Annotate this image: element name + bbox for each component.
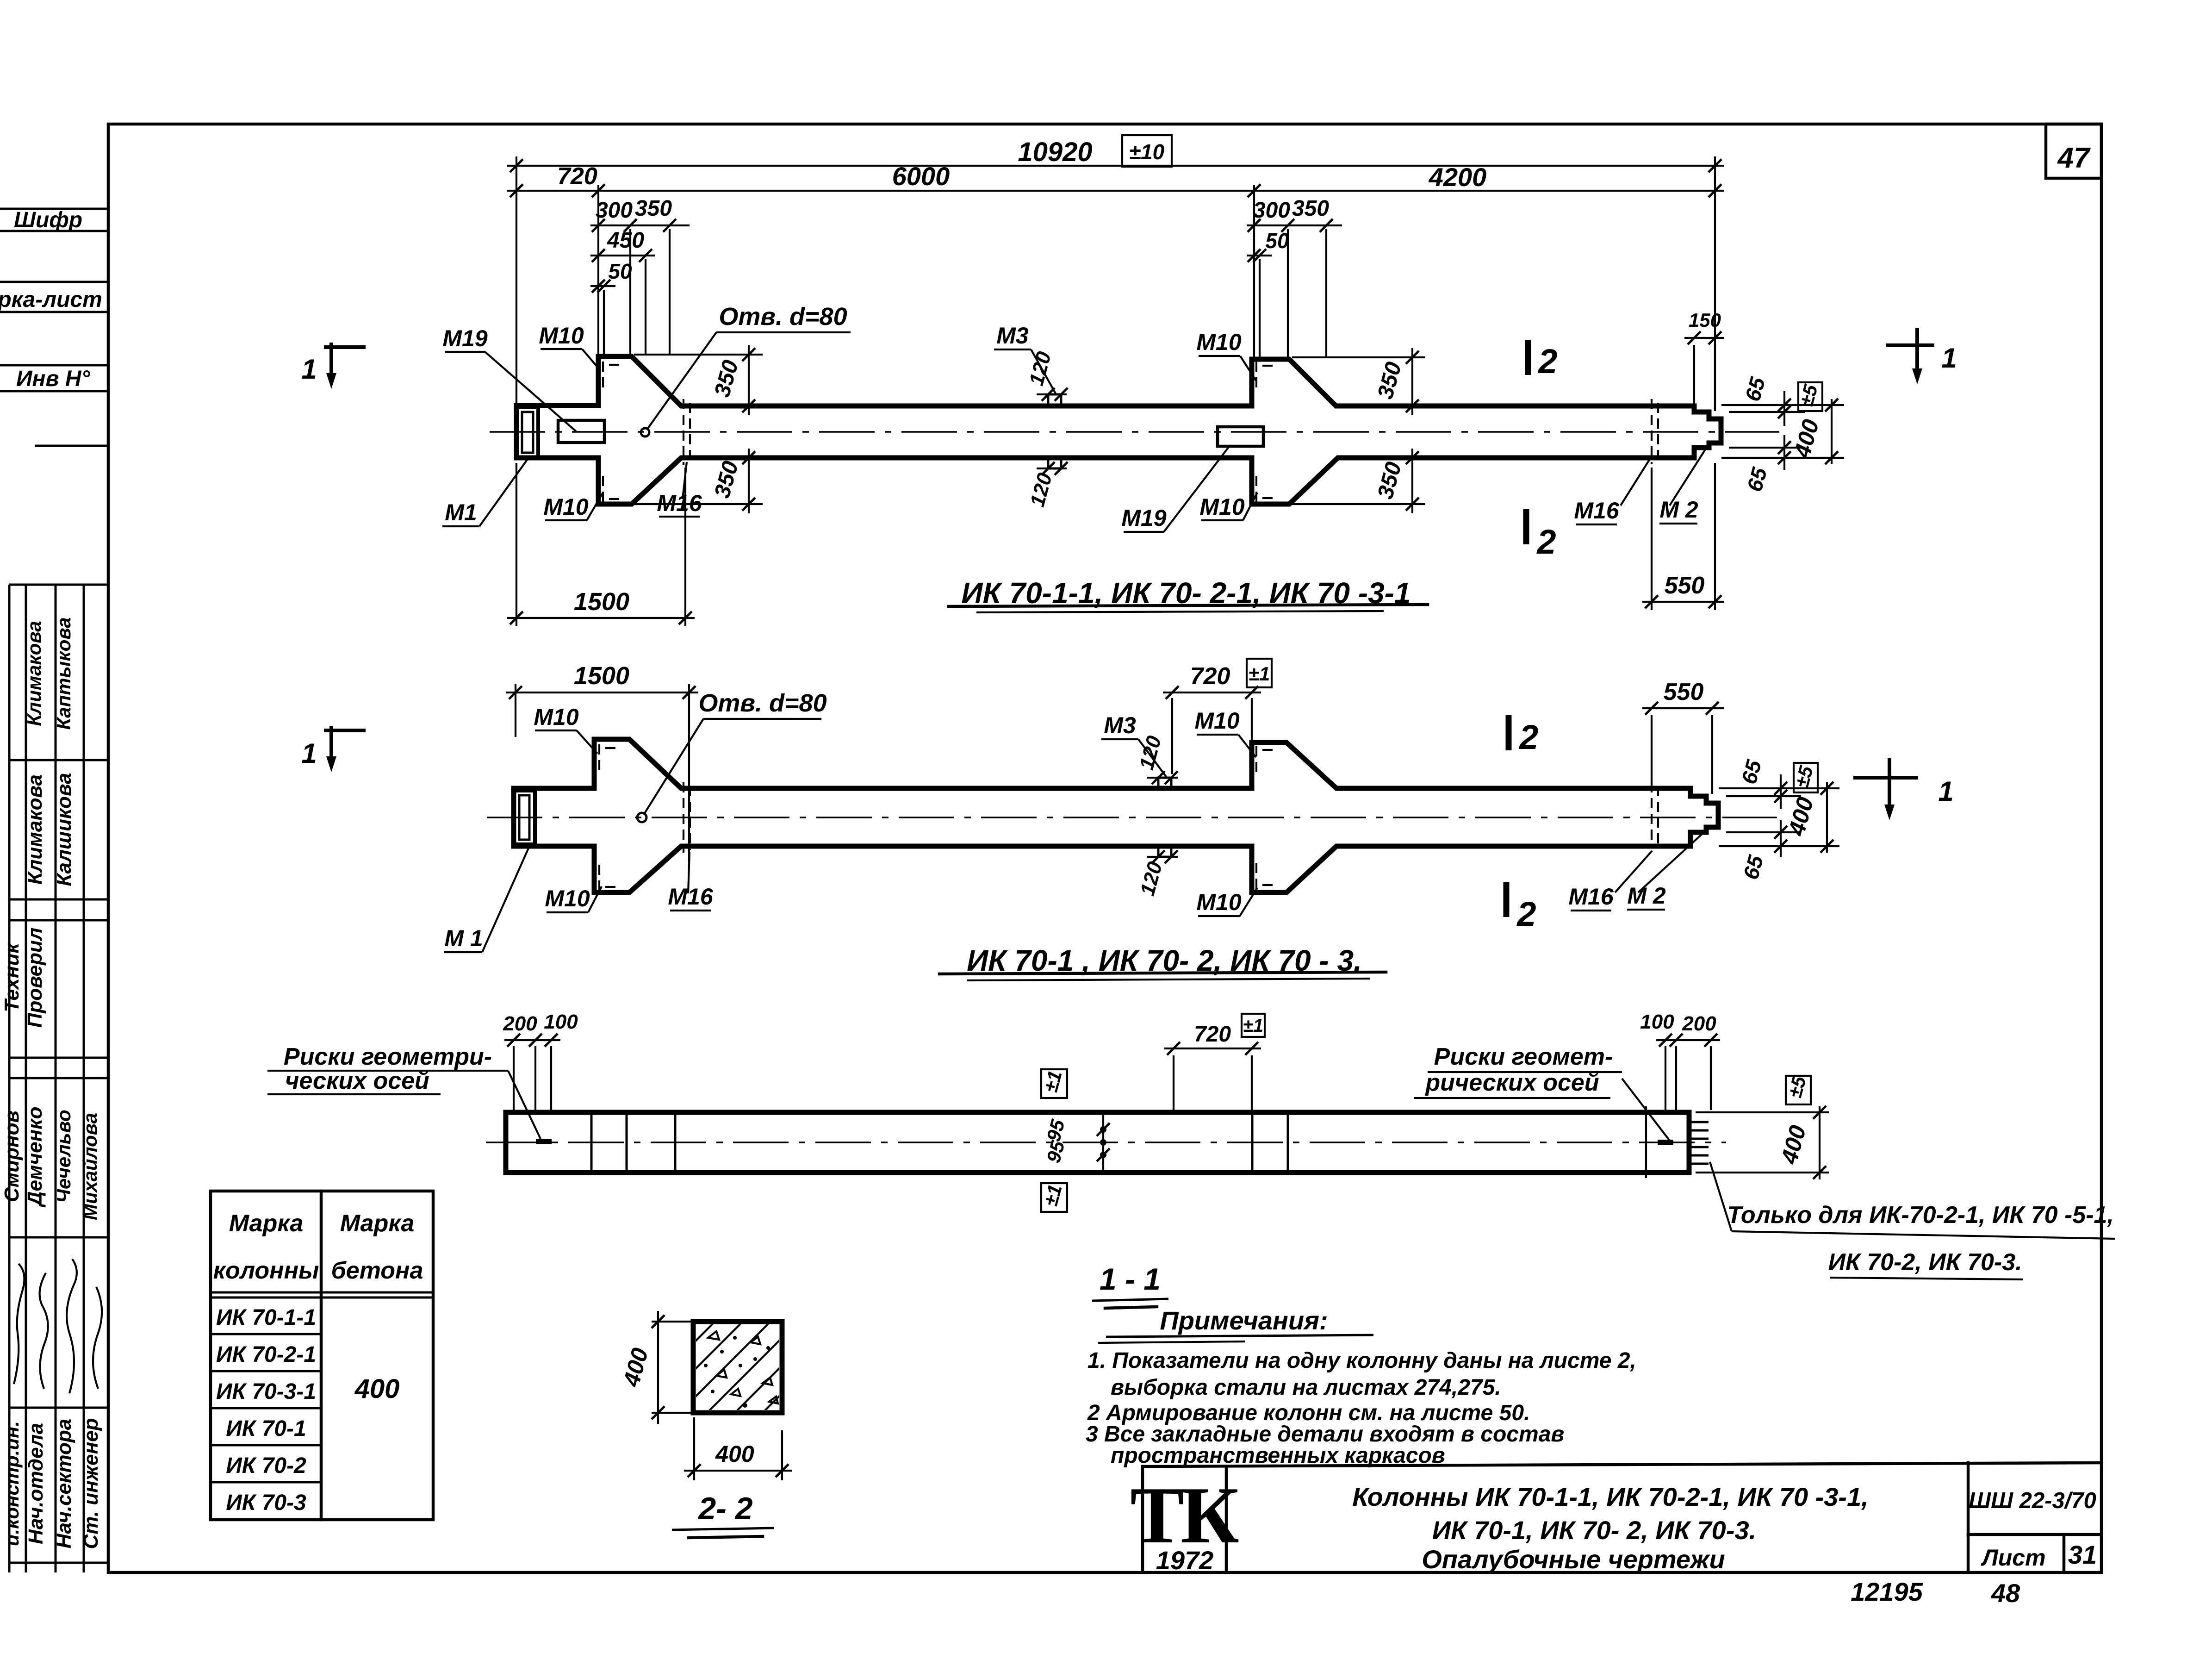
dashed anchor М16 (A head) <box>683 399 684 465</box>
dim 400 (C right) <box>1696 1111 1829 1113</box>
svg-text:2- 2: 2- 2 <box>697 1491 752 1526</box>
svg-text:550: 550 <box>1664 679 1704 705</box>
svg-text:ИК 70-3-1: ИК 70-3-1 <box>216 1379 316 1404</box>
svg-text:М10: М10 <box>1196 889 1241 915</box>
svg-text:М10: М10 <box>545 886 590 911</box>
svg-text:ИК 70-1, ИК 70- 2, ИК 70-3.: ИК 70-1, ИК 70- 2, ИК 70-3. <box>1432 1516 1756 1545</box>
dim 550 (B right) <box>1651 715 1653 783</box>
svg-text:М10: М10 <box>534 704 578 730</box>
section mark 1 (A right) <box>1886 343 1934 347</box>
svg-text:М16: М16 <box>1568 884 1614 910</box>
svg-text:12195: 12195 <box>1851 1577 1923 1606</box>
dim 50 (A middle) <box>1247 255 1272 256</box>
svg-text:Риски геометри-: Риски геометри- <box>284 1043 492 1070</box>
section mark 1 (A left) <box>324 345 366 349</box>
svg-text:М10: М10 <box>1194 708 1239 734</box>
svg-text:Нач.отдела: Нач.отдела <box>25 1423 47 1544</box>
svg-text:2: 2 <box>1537 342 1557 381</box>
svg-text:Нач.сектора: Нач.сектора <box>53 1419 75 1548</box>
svg-text:10920: 10920 <box>1018 137 1092 167</box>
svg-text:720: 720 <box>557 163 597 190</box>
svg-text:Михайлова: Михайлова <box>79 1113 101 1220</box>
svg-text:колонны: колонны <box>213 1257 319 1284</box>
svg-text:ИК 70-3: ИК 70-3 <box>226 1491 306 1515</box>
section mark 1 (B left) <box>324 729 366 732</box>
body C <box>506 1112 1689 1173</box>
svg-text:Только для ИК-70-2-1, ИК 70 -: Только для ИК-70-2-1, ИК 70 -5-1, <box>1727 1202 2114 1229</box>
svg-text:6000: 6000 <box>892 162 950 191</box>
svg-text:Проверил: Проверил <box>24 928 46 1028</box>
svg-text:1: 1 <box>301 354 317 385</box>
left margin row: Шифр <box>0 208 108 210</box>
svg-text:1500: 1500 <box>574 588 629 616</box>
rebar dots line (C) <box>1102 1115 1104 1170</box>
svg-text:М16: М16 <box>1574 498 1619 524</box>
svg-text:Климакова: Климакова <box>23 621 45 726</box>
dim 720 ±1 (B) <box>1171 698 1173 774</box>
svg-text:М16: М16 <box>668 884 713 910</box>
section mark 2 (B bottom) <box>1504 882 1510 917</box>
svg-text:М19: М19 <box>442 325 487 351</box>
svg-text:300: 300 <box>596 198 633 223</box>
svg-text:Лист: Лист <box>1981 1545 2045 1571</box>
svg-text:выборка стали на листах 27: выборка стали на листах 274,275. <box>1111 1375 1501 1400</box>
section mark 1 (B right) <box>1853 776 1918 780</box>
left margin row: Инв № <box>0 364 108 367</box>
svg-text:50: 50 <box>608 259 632 283</box>
svg-text:ИК 70-2: ИК 70-2 <box>226 1453 306 1478</box>
svg-text:200: 200 <box>503 1012 537 1035</box>
svg-text:1 - 1: 1 - 1 <box>1100 1262 1161 1296</box>
М3 plate top (B) <box>1158 778 1171 788</box>
svg-text:1. Показатели на одну колон: 1. Показатели на одну колонну даны на ли… <box>1087 1348 1636 1373</box>
svg-text:Ст. инженер: Ст. инженер <box>80 1418 102 1549</box>
svg-text:Техник: Техник <box>0 942 23 1012</box>
svg-text:М19: М19 <box>1121 505 1166 531</box>
svg-text:рических осей: рических осей <box>1424 1069 1599 1096</box>
dim 1500 (B) <box>515 684 516 737</box>
svg-text:±1: ±1 <box>1243 1016 1263 1036</box>
section mark 2 (A top) <box>1525 340 1531 375</box>
dim 350 vertical (A middle console top) <box>1292 356 1425 358</box>
dim 400 (B right) <box>1826 782 1828 853</box>
dashed М10 plates (A middle console) <box>1255 362 1257 388</box>
svg-text:М10: М10 <box>543 494 588 520</box>
svg-text:Инв Н°: Инв Н° <box>16 367 91 391</box>
svg-text:1: 1 <box>1941 343 1957 374</box>
risk mark right (C) <box>1658 1140 1673 1145</box>
svg-text:ШШ 22-3/70: ШШ 22-3/70 <box>1969 1488 2096 1513</box>
svg-text:50: 50 <box>1265 229 1289 253</box>
dim 65 top (A right) <box>1721 404 1844 406</box>
svg-text:550: 550 <box>1665 572 1705 599</box>
svg-text:ИК 70-2, ИК 70-3.: ИК 70-2, ИК 70-3. <box>1828 1249 2022 1276</box>
column A outline <box>516 356 1721 504</box>
svg-text:М10: М10 <box>1196 329 1241 355</box>
svg-text:2: 2 <box>1518 718 1538 756</box>
svg-text:100: 100 <box>544 1011 578 1033</box>
dashed М10 plates (B middle console) <box>1255 746 1257 772</box>
dim 65 bottom (A right) <box>1729 447 1805 449</box>
svg-text:ИК 70-1: ИК 70-1 <box>226 1416 306 1441</box>
svg-text:1972: 1972 <box>1156 1546 1214 1575</box>
embedded plate М19 (A middle) <box>1218 427 1263 446</box>
svg-text:400: 400 <box>354 1374 400 1404</box>
stamp signatures squiggles <box>14 1264 25 1384</box>
svg-text:1: 1 <box>301 738 317 769</box>
dim 50 (A left) <box>590 285 615 287</box>
svg-text:150: 150 <box>1689 309 1721 331</box>
svg-text:Климакова: Климакова <box>24 774 46 885</box>
section square <box>693 1322 782 1413</box>
dim 350 vertical (A middle console bottom) <box>1361 457 1425 459</box>
left margin row: Марка-лист <box>0 281 108 283</box>
svg-text:М10: М10 <box>1199 494 1244 520</box>
svg-text:47: 47 <box>2057 142 2091 174</box>
svg-text:Шифр: Шифр <box>14 208 82 232</box>
left margin short line <box>35 445 108 447</box>
dim 400 horizontal (2-2) <box>693 1417 695 1480</box>
C division lines left <box>590 1112 593 1173</box>
dim 120 top (A М3) <box>1037 393 1067 395</box>
dim 550 (A right) <box>1651 468 1653 610</box>
dashed М10 plates (A left console) <box>602 362 604 388</box>
dim 400 vertical (2-2) <box>652 1321 700 1322</box>
risk mark left (C) <box>536 1139 552 1144</box>
svg-text:ИК 70-2-1: ИК 70-2-1 <box>216 1342 316 1367</box>
М3 plate bottom (A) <box>1048 458 1061 468</box>
serrated end (C) <box>1690 1122 1709 1164</box>
dim 65 bottom (B right) <box>1726 831 1801 833</box>
dim chain 720 / 6000 / 4200 (A) <box>597 185 599 356</box>
svg-text:48: 48 <box>1991 1578 2020 1608</box>
dim 450 (A left) <box>590 255 655 256</box>
svg-text:бетона: бетона <box>331 1257 423 1284</box>
svg-text:ИК 70-1-1: ИК 70-1-1 <box>216 1305 316 1330</box>
svg-text:2: 2 <box>1536 523 1556 561</box>
svg-text:Чечельво: Чечельво <box>53 1110 75 1203</box>
svg-text:350: 350 <box>1292 196 1329 221</box>
dim 100 200 (C right) <box>1665 1046 1666 1110</box>
column A centerline <box>490 431 1779 433</box>
svg-text:400: 400 <box>715 1441 754 1467</box>
±5 box (A right) <box>1798 382 1822 411</box>
column B centerline <box>487 817 1777 818</box>
svg-text:Калшикова: Калшикова <box>53 773 75 886</box>
dim 350 vertical (A left console bottom) <box>694 457 763 459</box>
dim 120 bottom (A М3) <box>1037 468 1067 469</box>
svg-text:31: 31 <box>2068 1540 2097 1569</box>
svg-text:Марка: Марка <box>340 1210 415 1237</box>
svg-text:±1: ±1 <box>1249 663 1270 685</box>
svg-text:450: 450 <box>607 228 644 253</box>
svg-text:М10: М10 <box>539 323 584 349</box>
svg-text:720: 720 <box>1194 1022 1231 1047</box>
svg-text:720: 720 <box>1190 663 1230 690</box>
C division lines middle <box>1251 1112 1254 1173</box>
section mark 2 (A bottom) <box>1523 509 1529 544</box>
svg-text:М 1: М 1 <box>444 925 483 951</box>
svg-text:1: 1 <box>1938 776 1953 807</box>
М3 plate top (A) <box>1048 394 1061 405</box>
dim 400 (A right) <box>1831 399 1833 464</box>
dim 65 top (B right) <box>1719 787 1839 789</box>
dim 10920 ±10 (A) <box>516 156 517 405</box>
embedded plate М19 (A head) <box>558 420 604 443</box>
svg-text:М 2: М 2 <box>1627 883 1666 909</box>
±5 box (C right) <box>1786 1076 1811 1104</box>
svg-text:М16: М16 <box>657 490 702 516</box>
dashed М16 line right (A) <box>1651 399 1653 464</box>
hole Отв d=80 (B) <box>637 813 646 822</box>
svg-text:Отв. d=80: Отв. d=80 <box>719 303 847 331</box>
svg-text:Примечания:: Примечания: <box>1160 1306 1328 1335</box>
svg-text:Колонны ИК 70-1-1, ИК 70-2-: Колонны ИК 70-1-1, ИК 70-2-1, ИК 70 -3-1… <box>1352 1482 1869 1511</box>
column B outline <box>514 739 1718 892</box>
svg-text:Риски геомет-: Риски геомет- <box>1434 1043 1613 1070</box>
dim 150 (A right neck) <box>1693 345 1695 410</box>
dim 300 350 (A middle) <box>1247 225 1342 226</box>
end plate М1 (A) <box>516 407 538 457</box>
dashed М10 plates (B left console) <box>598 744 600 770</box>
end plate М1 (B) <box>514 791 535 844</box>
svg-text:Смирнов: Смирнов <box>0 1110 23 1202</box>
svg-text:М3: М3 <box>996 323 1029 349</box>
svg-text:и.констр.ин.: и.констр.ин. <box>1 1421 23 1546</box>
svg-text:Опалубочные чертежи: Опалубочные чертежи <box>1422 1545 1725 1574</box>
dim 120 bottom (B М3) <box>1147 856 1178 858</box>
svg-text:Каптыкова: Каптыкова <box>53 617 75 730</box>
dim 720 ±1 (C) <box>1173 1055 1174 1110</box>
svg-text:100: 100 <box>1640 1011 1674 1033</box>
±5 box (B right) <box>1794 763 1818 792</box>
dim 350 vertical (A left console top) <box>634 354 763 356</box>
svg-text:1500: 1500 <box>574 662 629 690</box>
svg-text:Демченко: Демченко <box>24 1107 46 1208</box>
svg-text:2: 2 <box>1516 895 1536 933</box>
svg-text:200: 200 <box>1682 1012 1716 1035</box>
svg-text:350: 350 <box>635 196 672 221</box>
signature stamp table (rotated) <box>9 585 108 1572</box>
dim 300 350 (A left) <box>590 225 690 226</box>
dim 200 100 (C left) <box>513 1046 515 1110</box>
C centerline <box>486 1142 1726 1143</box>
svg-text:ирка-лист: ирка-лист <box>0 287 102 312</box>
svg-text:4200: 4200 <box>1429 162 1487 192</box>
dim 1500 (A) <box>516 463 517 626</box>
page number box 47 <box>2046 124 2101 178</box>
section mark 2 (B top) <box>1506 715 1512 750</box>
svg-text:±10: ±10 <box>1129 140 1165 164</box>
svg-text:Марка: Марка <box>229 1210 304 1237</box>
М3 plate bottom (B) <box>1158 846 1171 857</box>
dashed anchor М16 (B head) <box>683 782 684 853</box>
svg-text:М3: М3 <box>1104 712 1136 738</box>
±1 boxes (C) <box>1041 1069 1067 1098</box>
dim 120 top (B М3) <box>1147 777 1178 779</box>
svg-text:300: 300 <box>1253 198 1290 223</box>
hole Отв d=80 (A) <box>641 428 649 437</box>
dashed М16 line right (B) <box>1651 782 1653 848</box>
svg-text:М1: М1 <box>445 499 477 525</box>
svg-text:Отв. d=80: Отв. d=80 <box>698 689 826 717</box>
svg-text:М 2: М 2 <box>1659 497 1698 523</box>
